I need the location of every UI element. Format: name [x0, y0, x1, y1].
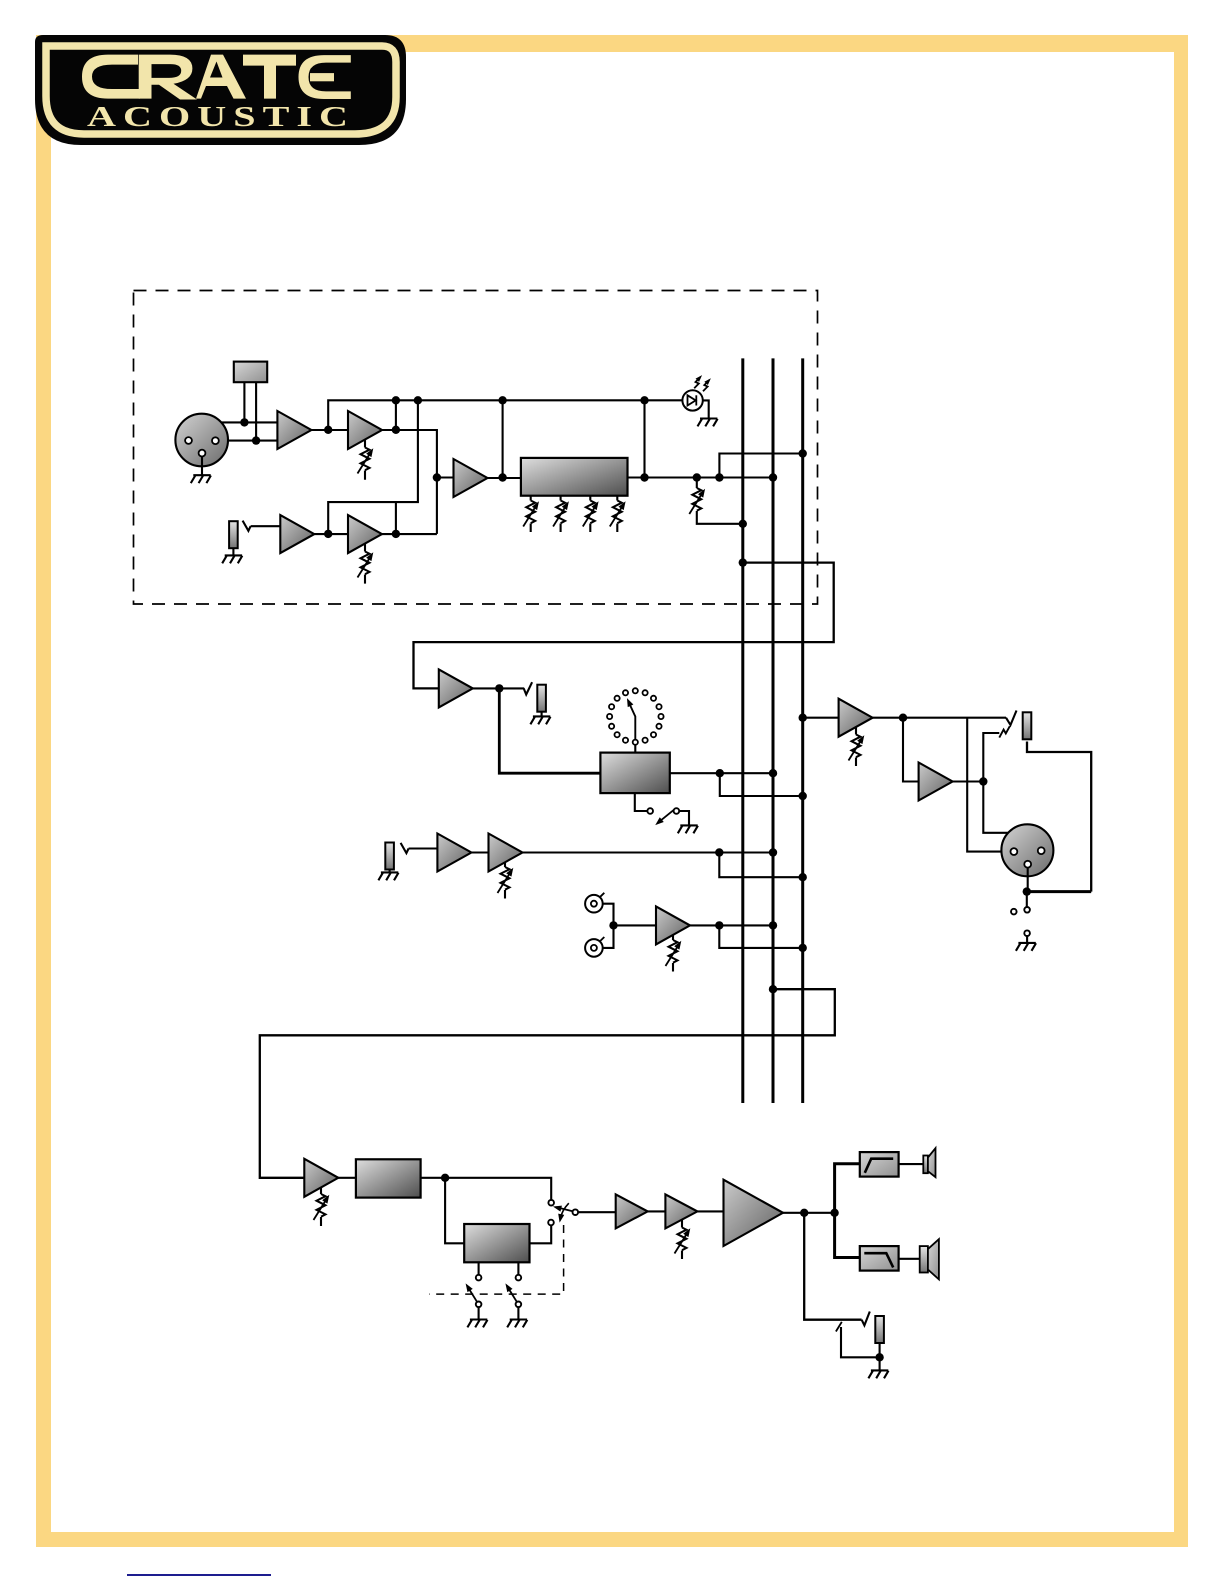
wire RCA to U11: [614, 924, 657, 926]
op-amp U14: [665, 1194, 697, 1228]
wire RCA to bus3: [719, 925, 802, 948]
footswitch FX: [635, 793, 648, 811]
chorus block B3: [464, 1224, 529, 1262]
ground LED: [703, 400, 709, 418]
phantom block legs: [244, 382, 256, 440]
wire rail to U2 out: [395, 400, 397, 430]
wire to headphone jack: [804, 1213, 861, 1320]
preamp dashed box: [134, 291, 818, 605]
wire J1 to U3: [251, 525, 281, 527]
wire bus1 to FX send: [414, 563, 834, 689]
op-amp U2 mic gain: [348, 411, 382, 449]
wire aux to bus2: [523, 851, 774, 853]
wire preamp to bus3: [719, 454, 802, 478]
variable resistor EQ4: [616, 496, 618, 532]
variable resistor VR6 RCA level: [672, 935, 674, 972]
jack J4 aux input: [385, 843, 394, 870]
wire crossover low: [835, 1213, 860, 1258]
wire U1 out: [311, 429, 348, 431]
wire bus2 to power section: [260, 989, 835, 1178]
op-amp U4 instrument gain: [348, 515, 382, 553]
wire U9 out: [471, 851, 488, 853]
speaker SP1 tweeter: [923, 1156, 928, 1174]
variable resistor VR5 aux level: [504, 862, 506, 899]
op-amp U1 mic preamp: [277, 411, 311, 449]
phantom power block: [234, 362, 267, 383]
wire SW2 to U13: [578, 1211, 616, 1213]
wire U6 out: [473, 687, 524, 689]
wire NC to U8 out: [983, 733, 999, 782]
variable resistor VR2 instrument gain: [364, 544, 366, 584]
wire chorus branch: [445, 1178, 464, 1244]
op-amp U8 DI driver: [919, 763, 953, 801]
wire pin1 to sleeve loop: [1027, 890, 1091, 893]
wire mix to U5: [437, 476, 454, 478]
footswitch chorus 2: [507, 1287, 517, 1302]
wire B3 out to switch: [530, 1225, 552, 1243]
bus line 1: [741, 358, 744, 1103]
footer rule: [127, 1574, 271, 1576]
jack J6 headphones: [862, 1312, 870, 1326]
op-amp U11 RCA level: [656, 906, 690, 944]
wire U5 out to rail: [502, 400, 504, 477]
wire B2 out to switch: [421, 1178, 552, 1200]
ground mic: [201, 456, 203, 475]
wire U7 out to U8: [903, 718, 919, 782]
logo word CRATE: [82, 55, 351, 100]
XLR DI output connector: [1001, 824, 1053, 876]
wire U7 out to line jack: [873, 717, 1006, 719]
wire EQ out to rail: [643, 400, 645, 477]
variable resistor EQ2: [560, 496, 562, 532]
wire U4 out to mix: [382, 533, 437, 535]
wire U12 out: [338, 1177, 356, 1179]
wire FX return: [499, 688, 600, 773]
variable resistor VR3 preamp level: [697, 478, 743, 524]
rotary switch SW1 effect select: [607, 688, 664, 745]
footswitch chorus 1: [468, 1287, 478, 1302]
bus line 2: [772, 358, 775, 1103]
wire RCA to bus2: [690, 924, 773, 926]
wire crossover high: [835, 1164, 860, 1213]
logo black plate: [35, 35, 406, 145]
op-amp U9 aux preamp: [437, 834, 471, 872]
power amp U15: [724, 1180, 784, 1246]
logo cream inner border: [46, 46, 396, 134]
variable resistor VR7 master: [320, 1188, 322, 1227]
CRATE ACOUSTIC logo: [0, 0, 440, 180]
wire U14 out: [697, 1210, 723, 1212]
LPF block B5: [860, 1246, 899, 1271]
wire EQ out to bus2: [628, 476, 774, 478]
wire U2 out to mix: [382, 430, 437, 534]
op-amp U12 master volume: [304, 1159, 338, 1197]
XLR mic input connector: [175, 414, 228, 467]
variable resistor VR4 DI level: [855, 727, 857, 766]
wire FX out to bus2: [670, 772, 773, 774]
variable resistor VR8: [681, 1220, 683, 1259]
ground lift switch: [1026, 892, 1028, 907]
wire aux to bus3: [719, 853, 802, 878]
wire to XLR pin2: [967, 718, 1011, 852]
variable resistor EQ3: [589, 496, 591, 532]
HPF block B4: [860, 1152, 899, 1177]
jack J2 FX send: [524, 682, 532, 694]
LED D1 clip indicator: [682, 390, 702, 410]
wire inst preamp rail link: [328, 400, 418, 534]
speaker SP2 woofer: [920, 1246, 928, 1272]
op-amp U6 FX send: [439, 669, 473, 707]
op-amp U3 instrument preamp: [280, 515, 314, 553]
wire FX out to bus3: [720, 773, 803, 796]
wire bus3 to DI: [803, 717, 839, 719]
limiter block B2: [356, 1159, 421, 1197]
wire XLR pin1 down: [1027, 867, 1029, 891]
FX mix block B6: [600, 753, 669, 794]
RCA jacks J5: [585, 895, 603, 913]
wire rail link 2: [395, 502, 397, 534]
wire U5 out: [488, 477, 521, 479]
wire U13 out: [648, 1210, 666, 1212]
wire mic pin1 to U1: [218, 440, 277, 442]
chorus foot stubs: [479, 1262, 519, 1274]
wire U8 out to XLR pin3: [983, 782, 1041, 846]
wire line jack sleeve loop: [1027, 742, 1091, 892]
wire U8 out: [953, 780, 984, 782]
wire J4 to U9: [409, 847, 438, 849]
headphone NC contact: [836, 1322, 842, 1332]
wire to woofer: [899, 1258, 920, 1260]
op-amp U13: [616, 1194, 648, 1228]
wire U3 out: [314, 533, 348, 535]
wire U15 out: [783, 1212, 835, 1214]
wire clip rail: [328, 400, 682, 430]
variable resistor VR1 mic gain: [364, 440, 366, 480]
wire headphone sleeve: [879, 1343, 881, 1357]
wire to tweeter: [899, 1163, 924, 1165]
wire mic pin2 to U1: [189, 422, 278, 437]
dashed link footswitch: [429, 1225, 563, 1294]
jack J3 line out: [1006, 711, 1017, 726]
switch SW2 chorus select: [548, 1200, 554, 1206]
EQ block B1: [521, 458, 628, 496]
variable resistor EQ1: [530, 496, 532, 532]
wire RCA join: [603, 904, 614, 948]
bus line 3: [801, 358, 804, 1103]
op-amp U7 DI level: [839, 699, 873, 737]
jack J1 instrument input: [229, 521, 238, 548]
jack J3 NC contact: [999, 726, 1010, 737]
op-amp U5 mixer: [454, 459, 488, 497]
op-amp U10 aux level: [489, 834, 523, 872]
